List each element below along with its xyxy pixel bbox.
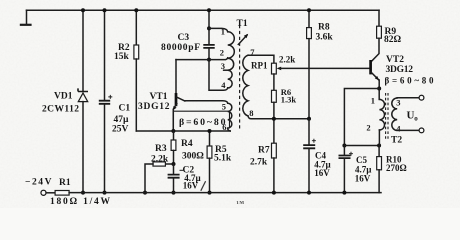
svg-text:β=60~80: β=60~80	[179, 117, 226, 128]
svg-text:180Ω 1/4W: 180Ω 1/4W	[50, 197, 111, 207]
svg-text:8: 8	[249, 108, 253, 118]
wire R2 column top	[135, 10, 137, 45]
svg-text:−24V: −24V	[25, 178, 52, 188]
svg-text:3DG12: 3DG12	[386, 65, 414, 75]
transformer T1 core	[239, 25, 241, 131]
ground	[20, 10, 32, 25]
wire emitter bus y131	[136, 130, 230, 132]
svg-text:2CW112: 2CW112	[42, 105, 79, 115]
svg-text:3: 3	[221, 61, 225, 71]
transformer T1 left winding upper	[228, 32, 235, 88]
capacitor C3	[203, 45, 214, 48]
transformer T2 left winding	[379, 99, 384, 130]
svg-text:3DG12: 3DG12	[138, 102, 170, 112]
svg-text:U: U	[407, 109, 415, 121]
junction dot top rail / VD1	[81, 8, 85, 12]
svg-text:TM: TM	[236, 201, 244, 206]
junction dot bottom rail / C4	[307, 191, 311, 195]
svg-text:3: 3	[396, 98, 400, 108]
wire R9 column	[378, 10, 380, 26]
wire RP1 to R6	[273, 74, 275, 90]
wire bottom rail	[69, 192, 381, 194]
svg-text:16V: 16V	[183, 180, 199, 190]
svg-text:VD1: VD1	[54, 92, 73, 102]
transformer T2 right winding	[392, 98, 397, 130]
svg-text:47µ: 47µ	[114, 115, 130, 125]
beta box VT1	[173, 111, 229, 130]
junction dot top rail / C3	[207, 8, 211, 12]
junction dot top rail / C1	[103, 8, 107, 12]
wire C1 column top	[104, 10, 106, 100]
resistor R2	[134, 45, 139, 59]
svg-text:2.2k: 2.2k	[151, 154, 169, 164]
junction dot node R8/C4	[307, 117, 311, 121]
wire C3 column from top rail	[208, 10, 210, 44]
label Uo	[407, 109, 419, 122]
svg-text:C1: C1	[119, 104, 131, 114]
wire R2 bottom to emitter node	[135, 59, 137, 131]
svg-text:5.1k: 5.1k	[214, 154, 232, 164]
svg-text:2.2k: 2.2k	[279, 55, 295, 65]
wire terminal to R1	[46, 192, 55, 194]
svg-text:270Ω: 270Ω	[386, 163, 407, 173]
junction dot emitter bus / R5	[208, 129, 212, 133]
svg-text:300Ω: 300Ω	[182, 151, 204, 161]
wire tap 3 stub	[224, 69, 228, 71]
wire base node to tap 2 and VT1 base	[176, 58, 228, 60]
junction dot tap8 node / R6 R7	[272, 117, 276, 121]
scan artifact stroke	[201, 181, 206, 191]
junction dot bottom rail / R7	[272, 191, 276, 195]
wire tap 7 to RP1	[248, 55, 274, 63]
wire R7 to bottom rail	[273, 158, 275, 193]
transistor VT1	[173, 60, 185, 131]
wire tap6 curl	[228, 128, 231, 131]
transistor VT2	[371, 60, 380, 89]
capacitor C2	[168, 164, 184, 193]
svg-text:T1: T1	[237, 19, 248, 29]
svg-text:C3: C3	[178, 33, 190, 43]
svg-text:o: o	[414, 114, 418, 122]
svg-text:R3: R3	[155, 144, 167, 154]
svg-text:2: 2	[220, 48, 224, 58]
junction dot emitter / R4	[171, 129, 175, 133]
svg-text:82Ω: 82Ω	[384, 35, 402, 45]
transformer T2 core	[386, 93, 388, 139]
transformer T1 adjust arrow	[238, 34, 248, 45]
svg-text:VT2: VT2	[386, 55, 404, 65]
wire emitter to T2 tap 1	[378, 89, 380, 100]
junction dot bottom rail / VD1	[81, 191, 85, 195]
wire VD1 column top	[82, 10, 84, 91]
svg-text:4: 4	[221, 80, 226, 90]
svg-text:16V: 16V	[314, 168, 330, 178]
junction dot bottom rail / R5	[208, 191, 212, 195]
junction dot T2 tap2 / R10	[377, 144, 381, 148]
wire emitter to C5 branch	[344, 89, 379, 146]
wire tap 1	[209, 28, 228, 31]
resistor R7	[272, 143, 277, 158]
resistor R8	[307, 28, 312, 39]
svg-text:6: 6	[222, 122, 226, 132]
junction dot VT2 emitter	[377, 87, 381, 91]
junction dot top rail / R8	[307, 8, 311, 12]
wire C5 node to R10 node	[344, 145, 379, 147]
resistor R4	[171, 131, 176, 164]
svg-text:5: 5	[222, 101, 226, 111]
svg-text:3.6k: 3.6k	[316, 32, 334, 42]
transformer T1 right winding	[243, 55, 248, 116]
resistor R10	[377, 146, 382, 193]
potentiometer RP1	[272, 63, 282, 74]
capacitor C5	[339, 146, 354, 193]
svg-text:1.3k: 1.3k	[281, 94, 297, 104]
svg-text:2: 2	[366, 123, 370, 133]
junction dot bottom rail / C1	[103, 191, 107, 195]
resistor R5	[207, 131, 212, 193]
resistor R6	[272, 90, 277, 102]
svg-text:16V: 16V	[355, 174, 371, 184]
svg-text:R7: R7	[258, 145, 270, 155]
wire R8 column top	[308, 10, 310, 27]
svg-text:RP1: RP1	[251, 61, 268, 71]
wire VT1 collector to tap 5	[185, 101, 228, 103]
capacitor C1	[99, 95, 113, 104]
junction dot tap1	[207, 26, 211, 30]
resistor R1	[55, 191, 69, 196]
wire node down to tap 4	[209, 60, 228, 91]
svg-text:80000pF: 80000pF	[161, 43, 200, 53]
svg-text:4: 4	[396, 124, 401, 134]
wire R9 to VT2 collector	[371, 38, 379, 62]
junction dot bottom rail / R3	[143, 191, 147, 195]
terminal -24V	[41, 190, 46, 195]
wire top rail	[27, 9, 380, 11]
junction dot top rail / R2	[134, 8, 138, 12]
transformer T1 left winding lower	[228, 103, 232, 128]
junction dot C5 top	[342, 144, 346, 148]
capacitor C4	[303, 119, 316, 193]
svg-text:R8: R8	[318, 22, 330, 32]
svg-text:1: 1	[221, 27, 225, 37]
svg-text:2.7k: 2.7k	[250, 158, 268, 168]
svg-text:1: 1	[371, 95, 375, 105]
svg-text:25V: 25V	[112, 125, 129, 135]
svg-text:T2: T2	[391, 135, 402, 145]
wire tap 3 to output	[397, 97, 419, 99]
zener diode VD1	[78, 88, 88, 101]
svg-text:VT1: VT1	[150, 92, 168, 102]
wire T2 tap2 down	[378, 130, 380, 146]
terminal output bottom	[419, 128, 424, 133]
wire C1 column bottom	[104, 104, 106, 192]
resistor R3	[145, 162, 174, 193]
wire wiper to VT2 base	[281, 67, 370, 69]
junction dot bottom rail / C2	[172, 191, 176, 195]
junction dot base node	[207, 58, 211, 62]
terminal output top	[419, 95, 424, 100]
svg-text:R4: R4	[181, 139, 193, 149]
wire R6 to R7	[273, 102, 275, 143]
svg-text:R1: R1	[59, 178, 71, 188]
svg-text:15k: 15k	[114, 52, 130, 62]
wire R8 to node	[308, 39, 310, 119]
wire VD1 column bottom	[82, 102, 84, 193]
resistor R9	[377, 26, 382, 38]
junction dot R3/R4/C2 node	[172, 162, 176, 166]
wire tap 8 bus	[248, 116, 309, 119]
junction dot bottom rail / C5	[342, 191, 346, 195]
wire tap 4 to output	[397, 129, 419, 131]
wire C3 bottom lead	[208, 48, 210, 59]
